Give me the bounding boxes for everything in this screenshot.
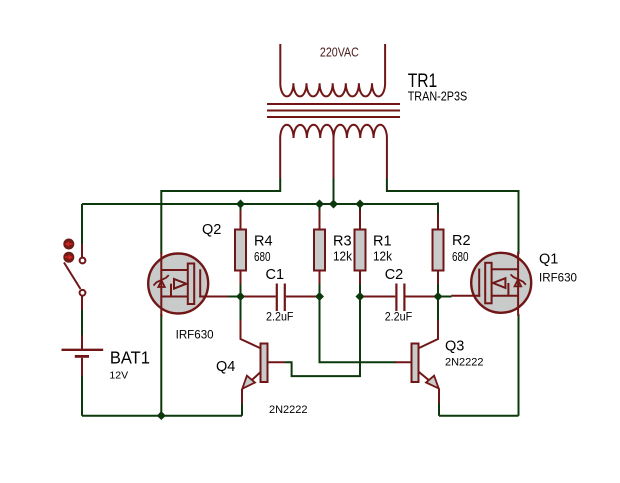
bottom lead: [81, 358, 83, 376]
junction dot node R1/C2/Q4-base: [356, 292, 365, 301]
Q4 collector lead: [241, 320, 262, 349]
wire: bottom-left ground rail battery to Q4 emitter: [82, 415, 242, 417]
svg-text:C1: C1: [266, 267, 285, 283]
wire: switch bottom to battery positive: [81, 310, 83, 336]
junction dot rail/R4: [236, 200, 245, 209]
svg-text:Q1: Q1: [539, 252, 558, 268]
resistor R4: [235, 210, 246, 284]
MOSFET Q1 (IRF630): [451, 252, 531, 316]
wire: battery negative to bottom-left rail: [81, 376, 83, 416]
transformer TR1: [267, 44, 400, 178]
wire: R2 bottom to node and Q3 collector: [437, 284, 439, 321]
svg-text:IRF630: IRF630: [539, 273, 577, 285]
wire: R3 top stub: [319, 204, 321, 214]
svg-text:Q4: Q4: [216, 359, 235, 375]
wire: Q1 gate to node: [438, 296, 452, 298]
junction dot node R2/C2/Q1-gate/Q3-collector: [434, 292, 443, 301]
wire: Q2 source down to bottom-left rail: [160, 314, 162, 416]
resistor R2: [433, 214, 444, 284]
wire: top supply rail from switch to R2: [82, 203, 438, 205]
Q4 emitter lead with arrow: [242, 372, 261, 389]
core lines: [267, 103, 400, 105]
svg-text:680: 680: [452, 250, 469, 264]
svg-text:12k: 12k: [333, 250, 353, 264]
svg-text:680: 680: [254, 250, 271, 264]
junction dot node R3/C1/Q3-base: [315, 292, 324, 301]
svg-text:IRF630: IRF630: [176, 330, 214, 342]
top lead: [81, 336, 83, 350]
svg-text:Q3: Q3: [445, 339, 464, 355]
transistor Q3 (2N2222): [395, 320, 439, 404]
Q4 base lead: [268, 361, 286, 363]
switch SW (interactive): [63, 239, 85, 311]
primary winding: [280, 44, 385, 96]
Q3 emitter lead with arrow: [419, 372, 439, 389]
wire: Q2 gate to node: [228, 296, 241, 298]
actuator button up: [63, 239, 74, 250]
junction dot node R4/C1/Q2-gate/Q4-collector: [236, 292, 245, 301]
wire: Q1 source down to bottom-right rail: [518, 314, 520, 416]
Q3 base bar: [412, 344, 419, 383]
wire: transformer centre tap to rail: [333, 178, 335, 204]
wire: R2 top drop from rail end: [437, 203, 439, 215]
svg-text:12V: 12V: [109, 369, 128, 381]
top lead (red part): [81, 244, 83, 258]
svg-text:Q2: Q2: [202, 222, 221, 238]
capacitor C2: [363, 284, 436, 312]
junction dot rail/R1: [356, 200, 365, 209]
short plate: [75, 355, 89, 358]
svg-text:R3: R3: [333, 234, 352, 250]
svg-text:TRAN-2P3S: TRAN-2P3S: [408, 89, 468, 104]
secondary winding: [280, 125, 387, 178]
battery BAT1: [62, 336, 104, 377]
svg-text:BAT1: BAT1: [110, 348, 150, 368]
Q4 base bar: [261, 344, 268, 383]
resistor R3: [314, 210, 325, 284]
wire: switch column drop from rail to switch top contact: [81, 204, 83, 245]
svg-text:R1: R1: [373, 234, 392, 250]
svg-text:2.2uF: 2.2uF: [385, 312, 413, 324]
junction dot bottom rail/Q2 source: [157, 411, 166, 420]
actuator button down: [63, 252, 74, 263]
junction dot rail/R3: [315, 200, 324, 209]
wire: Q3 emitter drop to bottom-right rail: [438, 404, 440, 416]
wire: transformer secondary left lead to Q2 drain: [161, 178, 280, 254]
svg-text:R2: R2: [452, 233, 471, 249]
transistor Q4 (2N2222): [241, 320, 286, 404]
top contact: [80, 258, 86, 264]
wire: Q4 emitter drop to bottom-left rail: [241, 404, 243, 416]
capacitor C1: [244, 284, 318, 312]
resistor R1: [355, 210, 366, 284]
svg-text:2N2222: 2N2222: [269, 404, 308, 416]
centre tap lead: [333, 138, 335, 178]
long plate: [62, 349, 104, 351]
junction dot rail/centre-tap: [329, 200, 338, 209]
wire: R1 top stub: [359, 204, 361, 214]
wire: R4 top stub: [240, 204, 242, 214]
wire: bottom-right rail Q3 emitter to Q1 source: [439, 415, 519, 417]
svg-text:2N2222: 2N2222: [445, 357, 484, 369]
wire: R3 bottom node down and across to Q3 base: [320, 284, 397, 363]
blade: [64, 263, 81, 290]
bottom lead: [81, 296, 83, 310]
bottom contact: [80, 290, 86, 296]
wire: R4 bottom to node and Q4 collector: [240, 284, 242, 321]
wire: transformer secondary right lead to Q1 drain: [387, 178, 519, 254]
Q3 collector lead: [418, 320, 438, 349]
wire: R1 bottom node down, across and up to Q4 base: [285, 284, 360, 377]
svg-text:R4: R4: [254, 234, 273, 250]
svg-text:12k: 12k: [373, 250, 393, 264]
svg-text:220VAC: 220VAC: [320, 44, 359, 59]
svg-text:C2: C2: [385, 267, 404, 283]
Q3 base lead: [395, 361, 412, 363]
MOSFET Q2 (IRF630): [148, 253, 228, 317]
svg-text:2.2uF: 2.2uF: [266, 312, 294, 324]
